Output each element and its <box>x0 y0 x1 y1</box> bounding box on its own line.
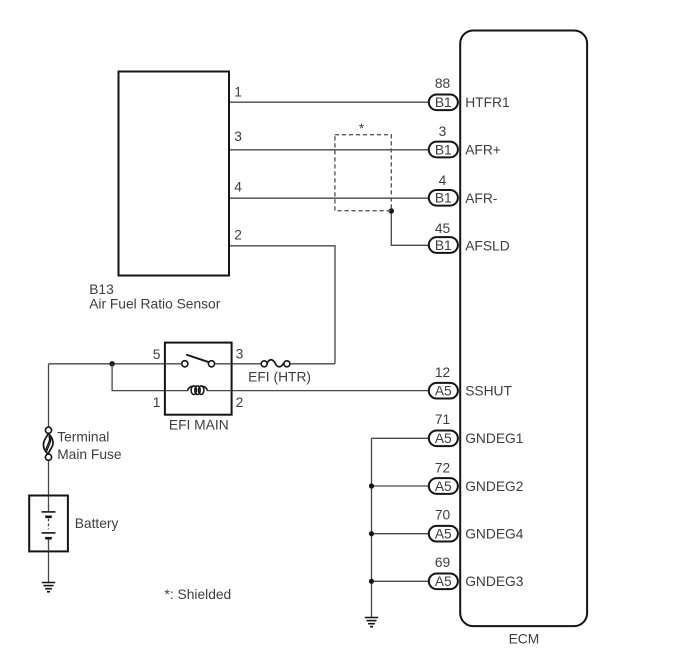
label GNDEG1 <box>465 431 523 446</box>
svg-text:B1: B1 <box>435 95 452 110</box>
wire relay internal pin3 stub <box>215 363 232 365</box>
ground battery <box>42 583 55 592</box>
wire relay pin2 to SSHUT <box>232 390 430 392</box>
svg-text:ECM: ECM <box>509 632 540 647</box>
connector pin B1 AFSLD <box>429 237 458 253</box>
label AFR- <box>465 191 497 206</box>
connector pin A5 GNDEG1 <box>429 430 458 446</box>
pin number 4 ECM <box>439 173 447 188</box>
relay coil <box>165 386 232 395</box>
pin number 70 <box>435 508 451 523</box>
connector pin B1 AFR- <box>429 190 458 206</box>
wire relay internal pin5 stub <box>165 363 182 365</box>
label EFI (HTR) <box>248 370 311 385</box>
label EFI MAIN <box>169 417 229 432</box>
connector pin A5 SSHUT <box>429 383 458 399</box>
fuse Terminal Main Fuse <box>43 427 53 460</box>
svg-text:GNDEG3: GNDEG3 <box>465 574 524 589</box>
pin number 2 relay <box>236 395 244 410</box>
relay switch blade <box>186 355 209 363</box>
wire pin3 sensor to AFR+ <box>230 149 430 151</box>
svg-text:A5: A5 <box>435 574 452 589</box>
label asterisk shield <box>359 121 365 136</box>
svg-text:GNDEG2: GNDEG2 <box>465 479 523 494</box>
svg-text:GNDEG1: GNDEG1 <box>465 431 523 446</box>
label ECM <box>509 632 540 647</box>
ground ECM bus <box>365 618 378 627</box>
svg-text:SSHUT: SSHUT <box>465 383 512 398</box>
svg-text:5: 5 <box>153 347 161 362</box>
pin number 69 <box>435 555 451 570</box>
label B13 <box>89 282 114 297</box>
pin number 5 relay <box>153 347 161 362</box>
pin number 72 <box>435 460 450 475</box>
pin number 3 sensor <box>234 129 242 144</box>
wire pin2 sensor to relay pin3 via vertical <box>230 246 335 364</box>
pin number 3 relay <box>236 347 244 362</box>
label Battery <box>75 516 119 531</box>
battery box <box>29 496 68 552</box>
svg-text:AFSLD: AFSLD <box>465 238 510 253</box>
svg-text:*: * <box>359 121 365 136</box>
node dot GNDEG2 <box>369 483 374 488</box>
relay switch contact right <box>208 361 214 367</box>
wire ground bus vertical <box>371 438 373 617</box>
svg-text:AFR+: AFR+ <box>465 143 501 158</box>
label shielded note <box>165 587 232 602</box>
pin number 88 <box>435 76 451 91</box>
connector pin A5 GNDEG3 <box>429 573 458 589</box>
svg-text:3: 3 <box>439 124 447 139</box>
wire shield drain to AFSLD <box>391 211 430 245</box>
pin number 2 sensor <box>234 227 242 242</box>
svg-text:88: 88 <box>435 76 451 91</box>
wire GNDEG4 to bus <box>372 533 431 535</box>
label SSHUT <box>465 383 512 398</box>
svg-text:72: 72 <box>435 460 450 475</box>
svg-text:1: 1 <box>234 85 242 100</box>
connector pin A5 GNDEG2 <box>429 478 458 494</box>
svg-text:B13: B13 <box>89 282 114 297</box>
connector pin B1 AFR+ <box>429 142 458 158</box>
wire pin1 sensor to HTFR1 <box>230 101 430 103</box>
wire battery to ground <box>48 551 50 582</box>
pin number 71 <box>435 412 450 427</box>
svg-text:4: 4 <box>439 173 447 188</box>
pin number 3 ECM <box>439 124 447 139</box>
svg-text:71: 71 <box>435 412 450 427</box>
wire rail down to terminal main fuse <box>48 364 50 427</box>
svg-text:A5: A5 <box>435 431 452 446</box>
wire fuse to vertical riser <box>290 363 335 365</box>
svg-text:AFR-: AFR- <box>465 191 497 206</box>
svg-text:HTFR1: HTFR1 <box>465 95 509 110</box>
wire branch to relay pin1 <box>112 364 165 391</box>
svg-text:Terminal: Terminal <box>57 430 109 445</box>
pin number 12 <box>435 365 450 380</box>
pin number 1 sensor <box>234 85 242 100</box>
svg-text:GNDEG4: GNDEG4 <box>465 526 524 541</box>
pin number 1 relay <box>153 395 161 410</box>
shield dashed box <box>335 135 391 211</box>
relay EFI MAIN box <box>165 343 232 415</box>
svg-text:12: 12 <box>435 365 450 380</box>
svg-text:B1: B1 <box>435 238 452 253</box>
label GNDEG2 <box>465 479 523 494</box>
pin number 4 sensor <box>234 179 242 194</box>
wire pin4 sensor to AFR- <box>230 197 430 199</box>
connector pin B1 HTFR1 <box>429 94 458 110</box>
sensor B13 box <box>119 72 230 276</box>
label AFSLD <box>465 238 510 253</box>
svg-text:45: 45 <box>435 221 451 236</box>
svg-text:69: 69 <box>435 555 451 570</box>
svg-text:A5: A5 <box>435 479 452 494</box>
svg-text:A5: A5 <box>435 527 452 542</box>
wire relay pin3 to fuse <box>232 363 262 365</box>
label Terminal Main Fuse <box>57 430 122 463</box>
svg-text:Air Fuel Ratio Sensor: Air Fuel Ratio Sensor <box>89 297 221 312</box>
svg-text:4: 4 <box>234 179 242 194</box>
svg-text:2: 2 <box>236 395 244 410</box>
svg-text:1: 1 <box>153 395 161 410</box>
wire fuse to battery <box>48 460 50 495</box>
svg-text:B1: B1 <box>435 191 452 206</box>
wire battery rail to relay pin5 <box>49 363 165 365</box>
svg-text:A5: A5 <box>435 384 452 399</box>
fuse EFI (HTR) <box>261 360 290 367</box>
relay switch contact left <box>182 361 188 367</box>
svg-text:3: 3 <box>236 347 244 362</box>
connector pin A5 GNDEG4 <box>429 526 458 542</box>
wire GNDEG3 to bus <box>372 580 431 582</box>
wire GNDEG2 to bus <box>372 485 431 487</box>
svg-text:*: Shielded: *: Shielded <box>165 587 232 602</box>
ECM box <box>460 31 587 627</box>
label Air Fuel Ratio Sensor <box>89 297 221 312</box>
svg-text:Main Fuse: Main Fuse <box>57 447 122 462</box>
battery cell symbol <box>42 496 56 552</box>
pin number 45 <box>435 221 451 236</box>
svg-text:EFI (HTR): EFI (HTR) <box>248 370 311 385</box>
node junction dot battery rail <box>109 361 114 366</box>
node dot GNDEG4 <box>369 531 374 536</box>
svg-text:Battery: Battery <box>75 516 119 531</box>
label AFR+ <box>465 143 501 158</box>
node dot GNDEG3 <box>369 579 374 584</box>
svg-text:B1: B1 <box>435 142 452 157</box>
label HTFR1 <box>465 95 509 110</box>
label GNDEG4 <box>465 526 524 541</box>
svg-text:70: 70 <box>435 508 451 523</box>
node shield junction dot <box>389 208 394 213</box>
wire GNDEG1 to bus <box>372 437 431 439</box>
svg-text:2: 2 <box>234 227 242 242</box>
svg-text:3: 3 <box>234 129 242 144</box>
svg-text:EFI MAIN: EFI MAIN <box>169 417 229 432</box>
label GNDEG3 <box>465 574 524 589</box>
